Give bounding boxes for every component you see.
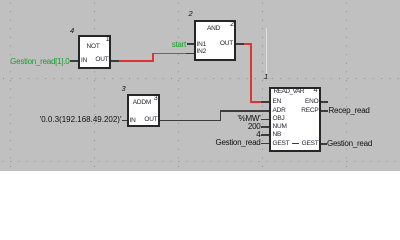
- node Gestion_read (output side): [327, 140, 372, 148]
- wire ADR horizontal: [220, 110, 269, 112]
- node Recep_read reception buffer: [329, 107, 370, 115]
- wire 4 to READ_VAR.NB: [261, 134, 269, 136]
- wire Gestion_read[1].0 to NOT.IN: [70, 60, 79, 62]
- wire ADDM.OUT to READ_VAR.ADR: [160, 120, 221, 122]
- READ_VAR internal dash between GEST pins: [292, 143, 299, 144]
- NOT pin label OUT: [95, 57, 108, 64]
- wire 200 to READ_VAR.NUM: [261, 126, 269, 128]
- AND pin label IN1: [197, 42, 207, 49]
- wire EN stub (black): [261, 101, 269, 103]
- READ_VAR pin label ADR: [273, 108, 286, 115]
- wire red horizontal to EN: [250, 101, 261, 103]
- READ_VAR pin label EN: [273, 99, 282, 106]
- node '%MW' object constant: [237, 115, 260, 123]
- ADDM pin label IN: [130, 118, 136, 125]
- READ_VAR corner number 4: [314, 87, 318, 94]
- function block AND (exec 2): [194, 20, 236, 61]
- wire %MW to READ_VAR.OBJ: [261, 119, 269, 121]
- READ_VAR title: [274, 89, 305, 96]
- wire AND.OUT to READ_VAR.EN (red): [244, 43, 252, 45]
- AND title: [207, 26, 220, 33]
- AND corner number 2: [230, 21, 234, 28]
- NOT title: [87, 44, 100, 51]
- READ_VAR pin label NUM: [273, 124, 287, 131]
- grid background dots: [0, 0, 400, 171]
- NOT pin label IN: [81, 58, 87, 65]
- function block NOT (exec 4): [78, 35, 111, 69]
- node Gestion_read management table: [215, 139, 260, 147]
- wire red riser: [152, 53, 154, 62]
- function block ADDM (exec 3): [127, 94, 160, 127]
- wire red horizontal to IN2: [152, 53, 186, 55]
- AND pin label OUT: [220, 41, 233, 48]
- wire red riser down: [250, 43, 252, 102]
- wire RECP to Recep_read: [321, 110, 329, 112]
- wire ADR riser: [220, 110, 222, 121]
- node start (green variable label): [172, 41, 186, 49]
- wire NOT.OUT to AND.IN2 (red, animated TRUE): [119, 60, 154, 62]
- column separator white line: [266, 28, 267, 77]
- wire Gestion_read to READ_VAR.GEST: [261, 143, 269, 145]
- READ_VAR pin label GEST (input): [273, 141, 290, 148]
- ADDM title: [133, 100, 151, 107]
- node '0.0.3(192.168.49.202)' address constant: [40, 116, 122, 124]
- node Gestion_read[1].0 (green variable label): [10, 58, 69, 66]
- wire AND.OUT stub (black): [236, 43, 244, 45]
- READ_VAR pin label RECP: [301, 108, 318, 115]
- wire ENO stub (unconnected): [321, 101, 328, 103]
- wire address to ADDM.IN: [122, 120, 127, 122]
- READ_VAR pin label NB: [273, 132, 282, 139]
- wire start to AND.IN1: [187, 43, 195, 45]
- function block READ_VAR (exec 1): [269, 87, 321, 152]
- node 200 constant: [248, 123, 261, 131]
- wire IN2 stub (black): [186, 53, 194, 55]
- AND pin label IN2: [197, 49, 207, 56]
- ADDM corner number 3: [154, 95, 158, 102]
- node 4 constant: [256, 131, 260, 139]
- READ_VAR pin label OBJ: [273, 116, 285, 123]
- block order number 4: [70, 27, 74, 35]
- wire NOT.OUT stub (black): [111, 60, 119, 62]
- block order number 2: [189, 10, 193, 18]
- ADDM pin label OUT: [144, 117, 157, 124]
- NOT corner number 1: [106, 36, 110, 43]
- block order number 1: [264, 73, 268, 81]
- wire GEST out to Gestion_read: [321, 143, 328, 145]
- READ_VAR pin label ENO: [305, 99, 319, 106]
- block order number 3: [122, 85, 126, 93]
- READ_VAR pin label GEST (output): [302, 141, 319, 148]
